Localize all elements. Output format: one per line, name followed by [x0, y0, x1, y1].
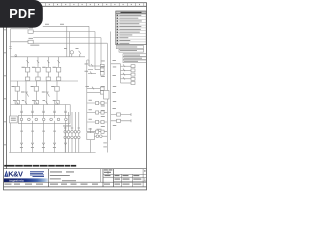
sensor labels — [64, 127, 80, 130]
relay group RG2 row2 — [87, 91, 104, 94]
relay group RG1 row2 — [88, 68, 104, 71]
column reference numerals — [8, 4, 140, 5]
contact a5 — [56, 101, 58, 104]
terminal strip X1 — [18, 116, 70, 124]
connector chevron c2 — [31, 143, 34, 145]
wire rail C — [11, 105, 71, 116]
svg-text:ingenieria: ingenieria — [10, 178, 25, 182]
branch contactor K1 — [25, 57, 29, 81]
company logo triangle — [4, 170, 8, 177]
title block right cells text — [104, 170, 146, 180]
coil boxes above rail C — [15, 100, 59, 104]
sensor circles B1-B4 — [64, 112, 80, 153]
timer T1 — [111, 113, 131, 116]
switch S2 — [45, 81, 50, 105]
wire rail B — [11, 80, 78, 82]
note box N5 — [123, 60, 146, 63]
row reference letters — [4, 29, 5, 145]
strip entry chevrons — [20, 111, 66, 113]
svg-text:PDF: PDF — [9, 7, 35, 21]
wire field cables — [22, 121, 66, 153]
branch relay K7 — [55, 81, 59, 105]
node label — [30, 44, 39, 47]
aux contact row 5 — [121, 82, 136, 85]
wire bus L3 — [33, 38, 101, 74]
wire bus L1 — [43, 26, 89, 66]
wire drop to ladder — [67, 26, 70, 57]
wire number labels right — [101, 61, 116, 127]
title block frame — [4, 169, 147, 187]
timer T2 — [111, 119, 131, 122]
coil pair P4 — [87, 130, 108, 133]
connector chevron c3 — [42, 143, 45, 145]
svg-text:K&V: K&V — [8, 170, 23, 179]
connector chevron c4 — [53, 143, 56, 145]
title block bottom row text — [5, 184, 142, 185]
connector chevron c1 — [20, 143, 23, 145]
contact K0 — [79, 51, 81, 57]
relay group RG1 row1 — [89, 64, 104, 68]
component value labels (greeked) — [11, 24, 116, 148]
coil pair P2 — [87, 111, 108, 114]
contact a4 — [46, 101, 48, 104]
lamp H1 — [70, 51, 73, 57]
contact a1 — [16, 101, 18, 104]
aux contact row 3 — [121, 73, 136, 76]
device labels — [97, 129, 107, 148]
wire terminal feeds — [22, 105, 66, 119]
wire cluster rail — [87, 60, 89, 132]
branch contactor K3 — [46, 57, 50, 81]
wire aux feed — [111, 64, 121, 83]
switch S1 — [24, 81, 29, 105]
connector chevron c5 — [64, 143, 67, 145]
fuse F2 — [11, 40, 34, 43]
branch relay K6 — [34, 81, 38, 105]
PDF badge overlay — [0, 0, 43, 28]
contact a2 — [25, 101, 27, 104]
coil pair P1 — [87, 101, 108, 104]
logo gradient bar — [4, 178, 48, 182]
column reference ticks — [13, 3, 144, 7]
relay group RG1 row3 — [88, 71, 104, 75]
wire bus L2 — [33, 32, 95, 70]
wire rail A — [11, 56, 85, 58]
terminal strip X1 label box — [10, 116, 18, 123]
footnote text line — [4, 165, 76, 167]
wire right rail N — [110, 32, 112, 141]
note box N4 — [123, 57, 146, 60]
aux contact row 2 — [121, 69, 136, 72]
title block center text — [50, 172, 76, 182]
branch contactor K4 — [56, 57, 60, 81]
svg-text:1: 1 — [144, 178, 146, 182]
contact a3 — [35, 101, 37, 104]
aux contact row 4 — [121, 77, 136, 80]
branch relay K5 — [15, 81, 19, 105]
title block right grid — [103, 169, 147, 187]
device box U3 — [104, 91, 110, 100]
coil pair P3 — [87, 120, 108, 123]
branch contactor K2 — [36, 57, 40, 81]
note box N2 — [119, 49, 144, 52]
device box U2 — [87, 128, 108, 153]
company address lines — [30, 171, 44, 177]
legend table — [116, 11, 146, 45]
note box N3 — [123, 54, 146, 57]
sheet border frame — [4, 3, 147, 190]
wire bus L4 — [33, 43, 107, 152]
fuse F1 — [11, 29, 34, 34]
wire bottom bus — [9, 152, 95, 154]
aux contact row 1 — [121, 64, 136, 67]
note box N1 — [116, 46, 143, 49]
relay group RG2 row1 — [87, 87, 104, 91]
wire left rail — [9, 29, 16, 153]
